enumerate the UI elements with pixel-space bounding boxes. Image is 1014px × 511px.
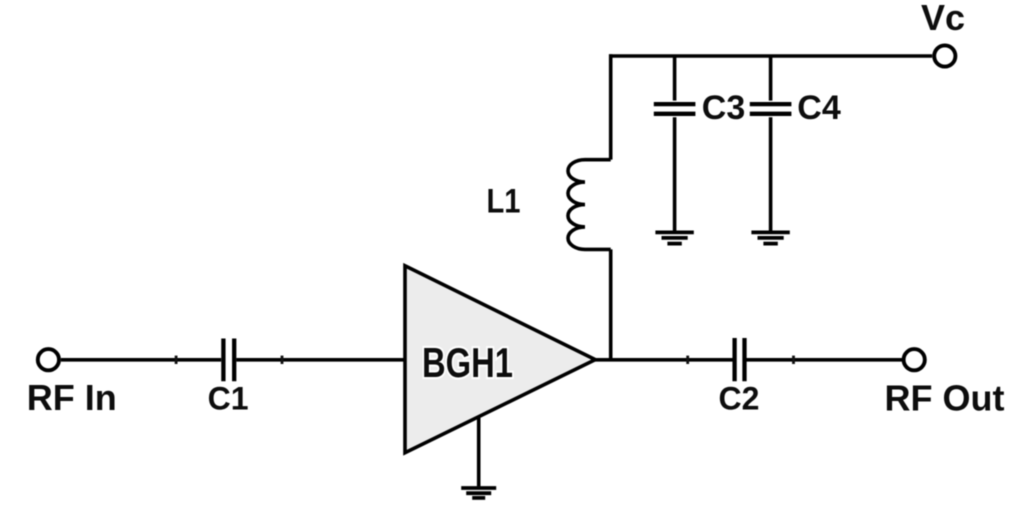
svg-text:C4: C4 [797,89,841,127]
svg-text:BGH1: BGH1 [422,339,513,386]
svg-text:Vc: Vc [921,0,965,38]
svg-text:L1: L1 [487,183,521,221]
svg-text:RF In: RF In [27,377,117,418]
svg-text:RF Out: RF Out [885,378,1005,419]
svg-text:C2: C2 [719,380,760,416]
svg-text:C1: C1 [208,381,249,417]
svg-text:C3: C3 [702,89,745,127]
